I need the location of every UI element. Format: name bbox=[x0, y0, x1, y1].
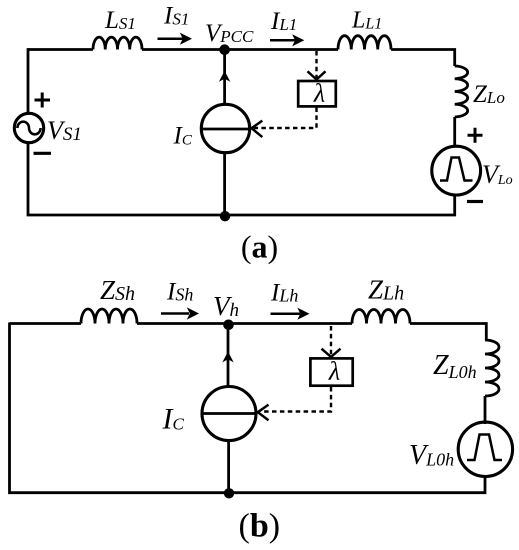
wire from V_PCC node down to current source (a) bbox=[223, 50, 226, 105]
wire right bottom segment (a) bbox=[28, 143, 455, 215]
dashed wire from top wire to lambda box (a) bbox=[315, 51, 317, 78]
svg-text:λ: λ bbox=[328, 357, 340, 386]
wire top-middle segment (b) bbox=[137, 322, 352, 325]
inductor L_L1 bbox=[338, 36, 391, 50]
current source I_C circle (b) bbox=[202, 387, 256, 441]
dashed wire from lambda box down and left to I_C (a) bbox=[254, 108, 317, 129]
source V_Lo circle bbox=[432, 146, 481, 195]
dashed wire from top wire to lambda box (b) bbox=[330, 326, 332, 355]
minus sign of V_Lo bbox=[467, 200, 483, 203]
wire left top segment (a) bbox=[28, 50, 30, 115]
current arrow I_L1 bbox=[270, 39, 295, 42]
arrowhead of I_C up arrow (b) bbox=[222, 352, 233, 363]
lambda box (a) bbox=[298, 81, 336, 106]
junction dot bottom (a) bbox=[220, 211, 230, 221]
sine wave of V_S1 bbox=[17, 122, 40, 135]
arrowhead into lambda box (b) bbox=[322, 349, 341, 357]
wire right bottom segment (b) bbox=[10, 323, 486, 493]
pulse waveform of V_L0h bbox=[467, 435, 502, 461]
current arrow I_S1 bbox=[158, 37, 184, 40]
current source I_C circle (a) bbox=[201, 104, 249, 152]
dashed wire from lambda box down and left to I_C (b) bbox=[264, 387, 331, 412]
arrowhead into lambda box (a) bbox=[308, 71, 326, 79]
open arrowhead at I_C (b) bbox=[258, 405, 269, 421]
inductor L_S1 bbox=[93, 37, 142, 49]
diameter line of I_C (b) bbox=[202, 412, 256, 415]
wire current source to bottom (a) bbox=[223, 153, 226, 216]
plus sign of V_Lo bbox=[468, 128, 483, 143]
svg-text:λ: λ bbox=[313, 79, 325, 108]
wire top-right segment (a) bbox=[391, 50, 455, 67]
current arrow I_Lh bbox=[271, 312, 301, 315]
plus sign of V_S1 bbox=[35, 93, 51, 108]
junction dot bottom (b) bbox=[224, 488, 234, 498]
diameter line of I_C (a) bbox=[201, 128, 249, 131]
node V_PCC dot bbox=[219, 44, 230, 55]
node V_h dot bbox=[223, 320, 234, 331]
wire from V_h node down to current source (b) bbox=[227, 325, 230, 387]
wire top-right segment (b) bbox=[410, 324, 486, 341]
svg-text:(b): (b) bbox=[239, 508, 281, 545]
source V_S1 circle bbox=[14, 113, 43, 142]
wire right segment above V_L0h (b) bbox=[484, 396, 487, 424]
wire top-left segment (a) bbox=[28, 48, 93, 51]
inductor Z_Sh bbox=[81, 309, 137, 324]
wire top-left segment (b) bbox=[10, 322, 82, 325]
minus sign of V_S1 bbox=[34, 152, 52, 155]
open arrowhead at I_C (a) bbox=[252, 121, 263, 138]
wire current source to bottom (b) bbox=[227, 441, 230, 493]
inductor Z_Lh bbox=[352, 310, 410, 324]
inductor Z_L0h bbox=[485, 340, 499, 396]
arrowhead of I_C up arrow (a) bbox=[219, 71, 230, 82]
pulse waveform of V_Lo bbox=[440, 158, 473, 181]
source V_L0h circle bbox=[458, 422, 512, 476]
wire top-middle segment (a) bbox=[142, 48, 338, 51]
lambda box (b) bbox=[310, 358, 352, 385]
wire right segment above V_Lo bbox=[453, 117, 456, 147]
current arrow I_Sh bbox=[161, 312, 189, 315]
svg-text:(a): (a) bbox=[241, 229, 278, 265]
inductor Z_Lo bbox=[455, 66, 468, 117]
